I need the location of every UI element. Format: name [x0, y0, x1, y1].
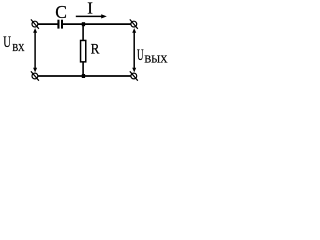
wire branch upper [82, 24, 84, 41]
voltage arrow Uvx (left, double-headed) [33, 28, 37, 72]
svg-text:I: I [87, 0, 93, 17]
voltage arrow Uvyx (right, double-headed) [132, 28, 136, 72]
junction top node [82, 22, 85, 26]
terminal top-right [130, 19, 138, 28]
junction bottom node [82, 74, 85, 78]
current arrow I [76, 14, 107, 18]
svg-text:U: U [137, 47, 144, 64]
wire top-right segment [63, 23, 131, 25]
terminal bottom-right [130, 71, 138, 80]
wire bottom segment [38, 75, 131, 77]
terminal bottom-left [31, 71, 39, 80]
wire top-left segment [38, 23, 58, 25]
capacitor C1 [57, 20, 63, 29]
svg-text:C: C [55, 2, 67, 22]
label U_BYX (output voltage) [137, 47, 168, 66]
terminal top-left [31, 19, 39, 28]
svg-text:R: R [91, 42, 100, 58]
svg-text:ВЫХ: ВЫХ [144, 54, 167, 66]
svg-text:ВХ: ВХ [12, 42, 24, 54]
label U_BX (input voltage) [3, 34, 24, 54]
wire branch lower [82, 62, 84, 76]
svg-text:U: U [3, 34, 11, 51]
resistor R [81, 40, 86, 61]
